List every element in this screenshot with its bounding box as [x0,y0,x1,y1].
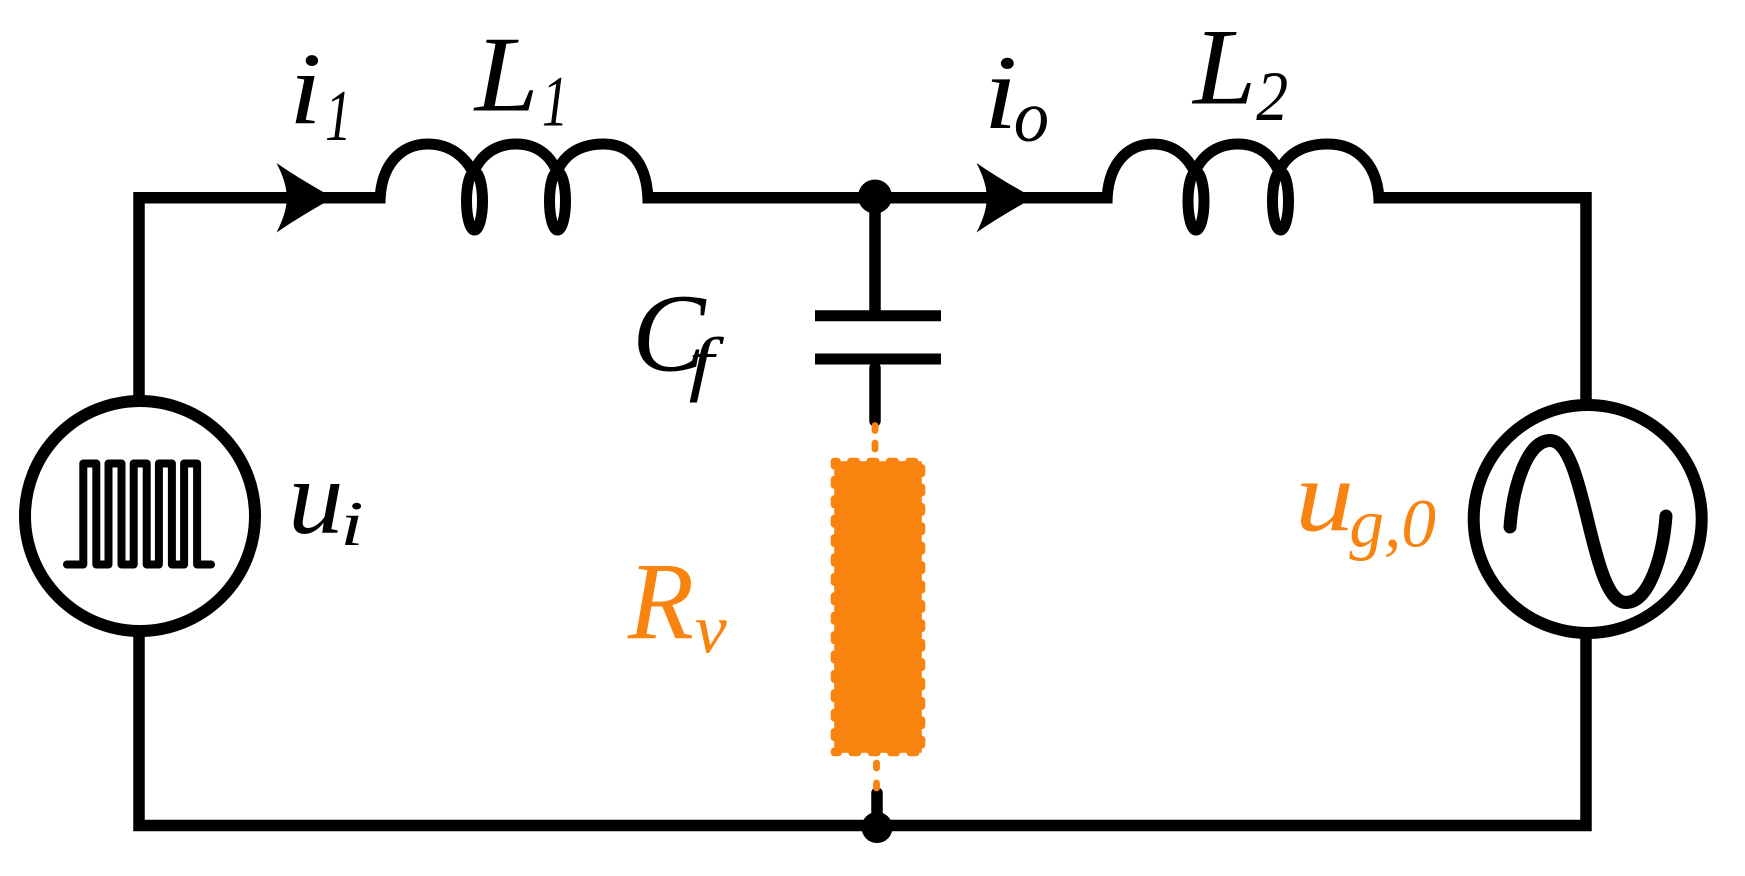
svg-text:i: i [340,488,363,559]
svg-text:L: L [473,14,539,134]
inductor L2 loop 2 [1273,172,1289,230]
capacitor Cf top plate [815,310,941,321]
orange dashed lead segment below resistor Rv [873,763,880,768]
wire bottom loop from source ug0 down, across and up to source ui [139,631,1586,826]
arrow of current i1 [277,163,334,233]
wire from L2 right and down to source ug0 [1379,198,1586,404]
resistor Rv body (orange dashed rectangle) [834,461,922,753]
inductor L1 loop 2 [550,172,566,230]
svg-text:f: f [689,323,725,403]
svg-text:u: u [1295,440,1354,553]
orange dashed lead segment above resistor Rv [872,443,879,449]
node A junction dot (top) [858,180,892,214]
svg-text:i: i [984,34,1018,151]
svg-text:o: o [1014,76,1049,157]
svg-text:1: 1 [542,61,568,142]
inductor L1 loop 1 [467,172,483,230]
sine symbol inside source ug0 [1510,441,1666,603]
wire from node A down to capacitor Cf [869,195,881,312]
orange dashed lead dot above resistor Rv [872,426,879,431]
svg-text:i: i [289,33,322,147]
orange dashed lead segment 2 below resistor Rv [873,783,880,788]
svg-text:R: R [627,540,694,662]
inductor L1 coil arcs [380,144,648,204]
svg-text:v: v [695,592,727,669]
square wave symbol inside source ui [67,464,211,565]
source U2 circle (AC source ug0) [1474,405,1702,633]
capacitor Cf bottom plate [815,354,941,365]
svg-text:L: L [1191,7,1256,128]
source U1 circle (square-wave source ui) [25,401,255,631]
wire top-left L from source ui up and right to inductor L1 [139,198,380,402]
svg-text:1: 1 [325,75,351,156]
svg-text:u: u [288,439,344,556]
inductor L2 coil arcs [1107,144,1379,204]
black wire stub from resistor Rv to bottom node [871,793,883,820]
node B junction dot (bottom) [862,812,893,843]
inductor L2 loop 1 [1188,172,1204,230]
wire from capacitor Cf down to resistor Rv [869,368,881,421]
svg-text:g,0: g,0 [1349,485,1436,561]
wire from L1 to node A and onward to L2 [647,192,1107,204]
arrow of current io [977,163,1034,233]
svg-text:2: 2 [1256,57,1288,136]
